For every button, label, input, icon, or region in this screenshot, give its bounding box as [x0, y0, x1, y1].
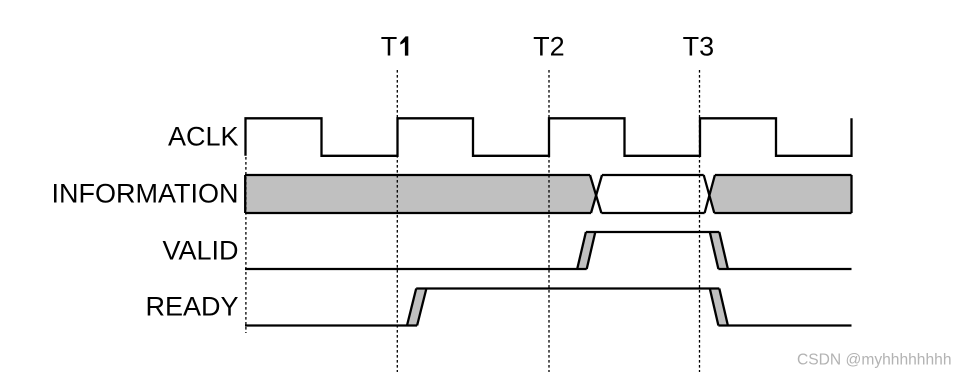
bus INFORMATION gray segment 1 fill [245, 175, 596, 213]
bus INFORMATION bottom edge segment 3 [714, 212, 851, 214]
VALID fall right slant [719, 232, 728, 269]
bus INFORMATION right edge [850, 175, 852, 213]
svg-text:T3: T3 [683, 32, 715, 62]
svg-text:VALID: VALID [162, 235, 238, 265]
bus INFORMATION gray segment 2 fill [709, 175, 851, 213]
READY rise left slant [407, 289, 416, 326]
bus INFORMATION crossover X1 line B [591, 175, 602, 213]
bus INFORMATION bottom edge segment 1 [245, 212, 591, 214]
bus INFORMATION crossover X2 line A [704, 175, 715, 213]
READY fall transition shading [710, 289, 728, 326]
svg-text:READY: READY [145, 292, 238, 322]
VALID rise right slant [587, 232, 596, 269]
bus INFORMATION crossover X1 line A [590, 175, 601, 213]
time marker dashed line T0 (unlabeled, left edge) [245, 157, 247, 333]
READY rise transition shading [407, 289, 426, 326]
svg-text:CSDN @myhhhhhhhh: CSDN @myhhhhhhhh [797, 352, 952, 369]
READY low line 2 [718, 324, 851, 326]
READY fall left slant [710, 289, 719, 326]
READY low line 1 [245, 324, 417, 326]
time marker dashed line T3 [699, 70, 701, 372]
VALID fall transition shading [710, 232, 728, 269]
VALID rise left slant [577, 232, 586, 269]
bus INFORMATION left edge [244, 175, 246, 213]
svg-text:INFORMATION: INFORMATION [52, 179, 239, 209]
time marker dashed line T1 [396, 70, 398, 372]
VALID low line 2 [718, 268, 851, 270]
VALID low line 1 [245, 268, 587, 270]
bus INFORMATION crossover X2 line B [705, 175, 715, 213]
svg-text:ACLK: ACLK [168, 122, 239, 152]
VALID fall left slant [710, 232, 719, 269]
svg-text:T2: T2 [533, 32, 565, 62]
ACLK clock waveform [246, 118, 852, 156]
READY high line [416, 287, 719, 289]
svg-text:T: T [381, 32, 398, 62]
time marker dashed line T2 [548, 70, 550, 372]
bus INFORMATION top edge segment 1 [245, 174, 590, 176]
READY fall right slant [719, 289, 728, 326]
VALID rise transition shading [577, 232, 595, 269]
bus INFORMATION top edge segment 2 (white section) [602, 174, 704, 176]
VALID high line [586, 231, 719, 233]
READY rise right slant [417, 289, 426, 326]
bus INFORMATION top edge segment 3 [715, 174, 852, 176]
bus INFORMATION bottom edge segment 2 (white section) [601, 212, 704, 214]
